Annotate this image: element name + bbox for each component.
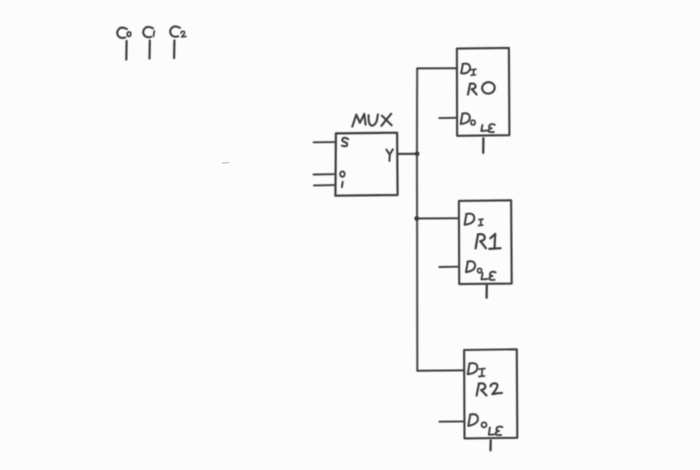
wire bus to R2 DI <box>417 369 464 371</box>
pin label Y <box>386 149 393 161</box>
junction R1-bus <box>414 216 419 221</box>
register R0 box <box>457 48 510 136</box>
wire bus to R0 DI <box>417 67 457 69</box>
wire bus to R1 DI <box>417 217 459 219</box>
wire LE pin R0 <box>482 138 484 153</box>
mux MUX label <box>352 114 391 127</box>
faint scan smudge <box>222 162 229 165</box>
node C1 <box>143 27 154 37</box>
wire 0 input <box>314 173 334 175</box>
wire 1 input <box>314 184 335 186</box>
pin label LE of R0 <box>481 124 495 132</box>
wire LE pin R1 <box>485 285 487 297</box>
wire Do output R0 <box>439 117 457 119</box>
pin label 1 <box>341 182 344 187</box>
junction Y-bus <box>415 151 420 156</box>
register R1 name label <box>476 234 501 249</box>
wire C2 stub <box>173 41 175 59</box>
pin label Do of R0 <box>461 113 476 125</box>
wire bus vertical <box>416 68 418 370</box>
pin label S <box>342 138 348 147</box>
register R0 name label <box>468 81 496 94</box>
node C0 <box>117 28 131 38</box>
register R2 box <box>464 349 517 438</box>
pin label Do of R2 <box>468 414 486 427</box>
wire Y output <box>398 153 418 155</box>
wire C1 stub <box>148 41 151 59</box>
pin label Do of R1 <box>466 261 482 273</box>
pin label DI of R1 <box>465 214 483 226</box>
register R1 box <box>459 200 512 284</box>
pin label LE of R2 <box>489 427 503 436</box>
wire Do output R2 <box>439 420 464 422</box>
register R2 name label <box>477 383 502 395</box>
wire Do output R1 <box>439 266 459 268</box>
wire LE pin R2 <box>489 441 492 451</box>
pin label 0 <box>340 171 345 176</box>
pin label LE of R1 <box>482 272 496 280</box>
wire C0 stub <box>125 41 127 60</box>
pin label DI of R0 <box>461 64 476 76</box>
node C2 <box>170 26 186 36</box>
pin label DI of R2 <box>468 363 485 376</box>
mux MUX box <box>335 133 397 196</box>
wire S input <box>314 141 336 143</box>
